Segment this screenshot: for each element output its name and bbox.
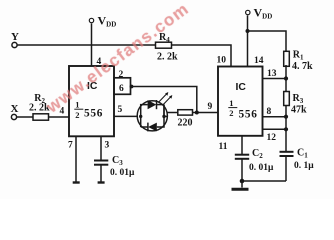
junction dot node 12	[284, 127, 288, 131]
wire node 12 to C1	[285, 117, 287, 152]
svg-text:4. 7k: 4. 7k	[292, 61, 313, 72]
svg-text:C1: C1	[297, 148, 308, 160]
IC2 pin 11 wire to C2	[241, 136, 243, 155]
C3 end bar	[98, 181, 105, 183]
svg-text:2: 2	[229, 108, 233, 118]
svg-text:0. 01μ: 0. 01μ	[249, 163, 274, 173]
svg-text:556: 556	[84, 108, 103, 120]
junction dot node 8	[284, 115, 288, 119]
wire C3 down	[100, 165, 102, 182]
wire 220 to IC2 pin 9	[193, 112, 219, 114]
wire IC2 pin 8	[263, 116, 287, 118]
wire C2 to bottom rail	[241, 159, 243, 181]
wire LED to R 220	[167, 112, 178, 114]
capacitor C2	[235, 148, 274, 173]
svg-text:R1: R1	[293, 50, 304, 62]
svg-text:13: 13	[267, 69, 277, 79]
wire IC2 pin 12	[263, 128, 287, 130]
junction dot VDD2 node	[246, 29, 250, 33]
svg-text:2. 2k: 2. 2k	[157, 52, 178, 63]
wire R1 to node 13	[285, 65, 287, 79]
resistor 220	[178, 110, 193, 129]
IC U1 (1/2 556)	[69, 66, 114, 136]
watermark www.elecfans.com	[43, 0, 193, 117]
wire node13 to R3	[285, 79, 287, 92]
svg-text:X: X	[11, 103, 19, 115]
svg-text:556: 556	[239, 108, 258, 120]
wire VDD2 to IC2 pin 14	[247, 15, 249, 66]
wire C1 to bottom rail	[285, 156, 287, 181]
LED emission arrows	[159, 92, 173, 105]
wire R3 to node 8	[285, 106, 287, 117]
wire VDD to IC1 top pin 4	[91, 23, 93, 66]
svg-text:14: 14	[254, 56, 264, 66]
svg-text:10: 10	[217, 56, 227, 66]
power VDD (left)	[89, 14, 116, 29]
svg-text:220: 220	[178, 118, 193, 129]
wire R4 to IC2 pin 10	[172, 45, 232, 67]
terminal X	[11, 103, 19, 120]
IC U2 (1/2 556)	[218, 67, 263, 136]
bottom rail wire	[242, 180, 286, 182]
pin 7 end bar	[73, 181, 80, 183]
svg-text:VDD: VDD	[98, 14, 117, 29]
IC1 pin 3 wire to C3	[100, 136, 102, 160]
wire IC1 pin 5 to LED	[114, 115, 137, 117]
wire IC2 pin 13	[263, 78, 287, 80]
svg-text:C3: C3	[112, 155, 123, 167]
svg-text:5: 5	[118, 105, 123, 115]
svg-text:VDD: VDD	[254, 6, 273, 21]
power VDD (right)	[246, 6, 273, 21]
svg-text:1: 1	[229, 98, 233, 108]
svg-text:9: 9	[208, 102, 213, 112]
svg-text:11: 11	[219, 142, 228, 152]
resistor R3 47k	[284, 92, 307, 116]
junction dot ground node	[240, 179, 245, 184]
wire VDD2 node to R1	[248, 31, 287, 51]
svg-text:47k: 47k	[291, 105, 307, 116]
IC1 pin 7 wire	[75, 136, 77, 182]
svg-text:C2: C2	[252, 148, 263, 160]
LED indicator (bidirectional, in circle)	[137, 100, 167, 131]
svg-text:0. 01μ: 0. 01μ	[110, 168, 135, 178]
svg-text:12: 12	[267, 133, 277, 143]
svg-text:Y: Y	[11, 31, 19, 43]
svg-text:8: 8	[267, 107, 272, 117]
svg-text:R3: R3	[293, 93, 304, 105]
junction dot pin6	[130, 85, 134, 89]
junction dot node 9	[195, 111, 199, 115]
wire Y to R4	[17, 44, 155, 46]
resistor R4	[156, 32, 179, 63]
capacitor C3	[94, 155, 135, 178]
wire pin6 to node 9	[132, 87, 197, 113]
svg-text:3: 3	[105, 141, 110, 151]
svg-text:IC: IC	[236, 82, 247, 93]
capacitor C1	[280, 148, 315, 172]
resistor R1	[284, 50, 313, 73]
svg-text:2: 2	[75, 110, 79, 120]
wire R2 to IC1 pin 4	[49, 116, 70, 118]
resistor R2	[29, 93, 50, 120]
wire X to R2	[17, 116, 33, 118]
svg-text:6: 6	[119, 84, 124, 94]
terminal Y	[11, 31, 19, 48]
svg-text:7: 7	[68, 141, 73, 151]
svg-text:0. 1μ: 0. 1μ	[294, 161, 314, 171]
ground	[232, 181, 249, 189]
junction dot node 13	[284, 76, 288, 80]
pin 6 box	[114, 78, 131, 95]
